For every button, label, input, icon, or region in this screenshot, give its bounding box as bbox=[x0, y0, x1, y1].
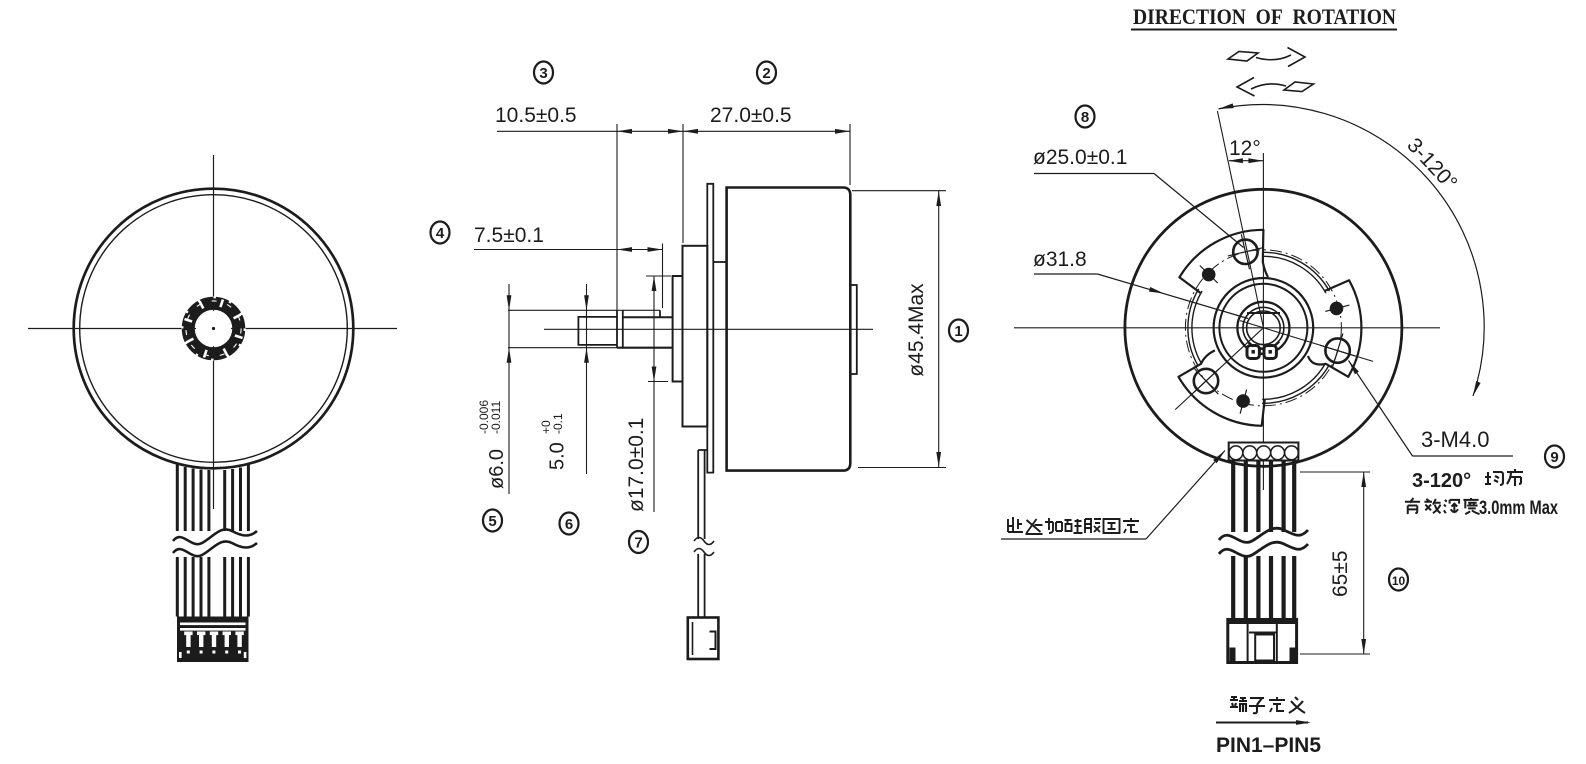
shaft hub (knurled ring) bbox=[182, 297, 244, 359]
svg-text:3.0mm Max: 3.0mm Max bbox=[1479, 498, 1558, 519]
dimension 65±5 bbox=[1300, 472, 1370, 654]
connector arcs r75 bbox=[1262, 366, 1329, 404]
wire break (rear view) bbox=[1219, 528, 1308, 556]
rotor petal top bbox=[1179, 230, 1268, 293]
motor can (side) bbox=[727, 188, 851, 471]
svg-text:5.0: 5.0 bbox=[547, 442, 569, 470]
connector (side view) bbox=[688, 618, 719, 660]
radial line to right M4 bbox=[1240, 321, 1373, 362]
svg-text:7.5±0.1: 7.5±0.1 bbox=[474, 224, 544, 247]
svg-text:3-120°: 3-120° bbox=[1412, 470, 1471, 492]
wire exit grommet bbox=[1229, 443, 1299, 461]
vertical centerline bbox=[1262, 153, 1264, 490]
snap ring arc bbox=[1248, 342, 1279, 349]
dim Ø45.4 bbox=[852, 190, 946, 192]
leader silicone note bbox=[1001, 538, 1146, 540]
12 deg dimension bbox=[1229, 160, 1263, 162]
connector (rear view) bbox=[1228, 618, 1297, 663]
svg-text:8: 8 bbox=[1081, 109, 1089, 126]
dim line 7.5 bbox=[474, 249, 663, 251]
svg-text:-0.1: -0.1 bbox=[551, 413, 565, 434]
svg-text:DIRECTION OF ROTATION: DIRECTION OF ROTATION bbox=[1133, 4, 1396, 29]
3-120 deg arc dimension bbox=[1219, 105, 1485, 396]
front view inner rim circle bbox=[80, 195, 348, 463]
snap ring end lugs bbox=[1247, 346, 1259, 359]
svg-text:ø6.0: ø6.0 bbox=[486, 449, 508, 489]
tie line pcb-can bbox=[713, 261, 726, 263]
svg-text:5: 5 bbox=[488, 513, 496, 530]
wire bundle (rear view) bbox=[1233, 461, 1294, 620]
bolt circle Ø25 (dash-dot) bbox=[1185, 250, 1341, 406]
radial line to lower-left M4 bbox=[1175, 328, 1263, 410]
cable break (wavy lines) bbox=[173, 529, 257, 556]
svg-text:ø45.4Max: ø45.4Max bbox=[905, 283, 928, 377]
cw arrow bbox=[1228, 52, 1258, 62]
svg-text:ø17.0±0.1: ø17.0±0.1 bbox=[625, 418, 648, 512]
latin parts of notes bbox=[1216, 470, 1558, 757]
shaft Ø6 silhouette lines bbox=[508, 309, 660, 311]
rotor petal right (Ø31.8 lobe) bbox=[1308, 280, 1361, 377]
svg-text:4: 4 bbox=[436, 225, 445, 242]
leader 3-M4.0 bbox=[1413, 455, 1514, 457]
12 deg slant line bbox=[1217, 111, 1263, 328]
svg-text:12°: 12° bbox=[1229, 137, 1261, 160]
svg-text:65±5: 65±5 bbox=[1329, 550, 1352, 597]
front housing boss bbox=[683, 246, 708, 427]
rotor petal lower-left bbox=[1179, 350, 1265, 425]
svg-text:-0.011: -0.011 bbox=[489, 401, 503, 434]
horizontal centerline bbox=[28, 328, 397, 330]
extension lines bbox=[616, 124, 618, 310]
svg-text:ø31.8: ø31.8 bbox=[1033, 248, 1087, 271]
svg-text:1: 1 bbox=[954, 323, 962, 340]
note: effective depth bbox=[1405, 498, 1480, 514]
svg-text:27.0±0.5: 27.0±0.5 bbox=[710, 104, 792, 127]
vertical centerline bbox=[213, 155, 215, 509]
note: add silicone fixing here bbox=[1008, 517, 1139, 534]
svg-text:2: 2 bbox=[762, 65, 770, 82]
note: terminal definition bbox=[1230, 697, 1305, 713]
centerline (side view) bbox=[544, 328, 873, 330]
bearing boss (Ø17) bbox=[673, 276, 683, 382]
svg-text:3: 3 bbox=[539, 65, 547, 82]
leader Ø25.0 bbox=[1001, 174, 1513, 540]
leader Ø31.8 bbox=[1034, 273, 1097, 275]
svg-text:3-M4.0: 3-M4.0 bbox=[1421, 427, 1489, 452]
arrowheads middle bbox=[507, 129, 942, 467]
hub circles bbox=[1237, 302, 1289, 354]
svg-text:10: 10 bbox=[1392, 574, 1406, 588]
rear hub bar bbox=[850, 285, 857, 374]
wire break marks (side) bbox=[694, 538, 714, 545]
svg-text:6: 6 bbox=[565, 516, 573, 533]
svg-text:7: 7 bbox=[634, 535, 642, 552]
lead wire strip (side) bbox=[697, 450, 699, 539]
shaft circlip groove bbox=[616, 310, 618, 347]
rivet dots bbox=[1200, 266, 1350, 414]
hub flat chord bbox=[1247, 312, 1280, 314]
ccw arrow bbox=[1284, 82, 1314, 92]
front view outer circle bbox=[74, 189, 354, 469]
wire bundle (front view, 5 leads) bbox=[177, 464, 248, 617]
bearing housing ring circles bbox=[1214, 278, 1314, 378]
PCB flange plate bbox=[707, 184, 713, 473]
svg-text:10.5±0.5: 10.5±0.5 bbox=[495, 104, 577, 127]
dim line 10.5 / 27.0 bbox=[497, 130, 850, 132]
connector (front view) bbox=[177, 617, 249, 663]
dim 5.0 bbox=[586, 284, 588, 474]
note: 3-120 evenly spaced bbox=[1485, 469, 1523, 486]
horizontal centerline bbox=[1014, 327, 1440, 329]
dim Ø6 bbox=[508, 284, 510, 494]
dim Ø17 bbox=[653, 276, 655, 512]
svg-text:9: 9 bbox=[1550, 449, 1558, 466]
shaft tip section bbox=[578, 317, 617, 345]
M4 screw holes with cross marks bbox=[1193, 234, 1355, 394]
svg-text:ø25.0±0.1: ø25.0±0.1 bbox=[1033, 146, 1127, 169]
rear view outer circle bbox=[1125, 189, 1402, 466]
svg-text:PIN1–PIN5: PIN1–PIN5 bbox=[1216, 734, 1321, 757]
